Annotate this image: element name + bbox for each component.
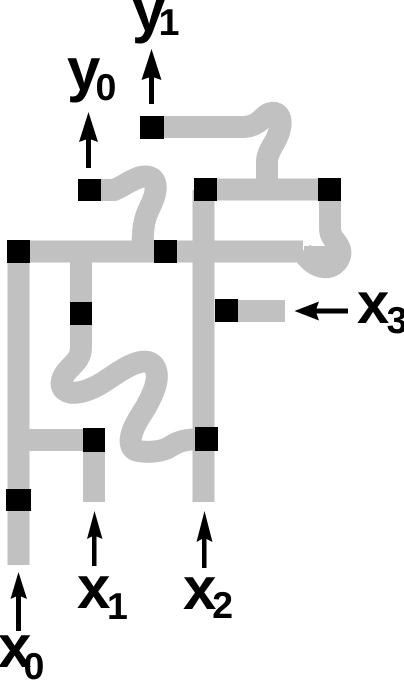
junction square x1 bottom: [83, 428, 105, 452]
wire S-curve from x1 down to bottom row: [62, 318, 196, 452]
wire y0 arch down to main bus: [101, 177, 156, 252]
wire hook from right square down to main bus: [302, 201, 340, 267]
label x2: [183, 577, 216, 609]
wire x3 stub: [237, 300, 285, 322]
label y0: [67, 58, 100, 102]
wire main horizontal bus: [8, 241, 303, 263]
junction square y1 output: [140, 116, 164, 139]
arrow x3 (points left): [295, 302, 349, 321]
junction square x2 bottom: [195, 427, 218, 451]
label y1: [132, 0, 165, 43]
wire x1 bottom stub: [83, 440, 105, 502]
junction square on x0 column lower: [6, 489, 31, 511]
wire x1 upper vertical: [70, 251, 92, 330]
wire x0 vertical: [8, 251, 30, 565]
junction square top-left on x2 column: [194, 178, 217, 201]
junction square x3 input: [215, 299, 238, 322]
arrow y1: [142, 49, 162, 104]
wire x2 long vertical: [193, 190, 215, 502]
wire bottom-left horizontal: [8, 429, 94, 451]
junction square bus-left on x0 column: [7, 240, 30, 263]
arrow y0: [79, 112, 98, 168]
arrow x1: [87, 511, 103, 566]
wire y1 arch from square to top bus: [163, 113, 281, 190]
junction square top-right: [318, 178, 341, 201]
wire hook interior fill: [304, 246, 333, 268]
arrow x0: [11, 572, 28, 631]
label x3: [357, 292, 388, 323]
label x1: [77, 576, 110, 608]
arrow x2: [197, 511, 213, 568]
junction square y0 output: [78, 179, 101, 201]
junction square bus-middle: [154, 240, 177, 263]
label x0: [0, 635, 31, 667]
wire top horizontal between squares: [206, 179, 330, 201]
junction square on x1 column: [70, 302, 92, 325]
